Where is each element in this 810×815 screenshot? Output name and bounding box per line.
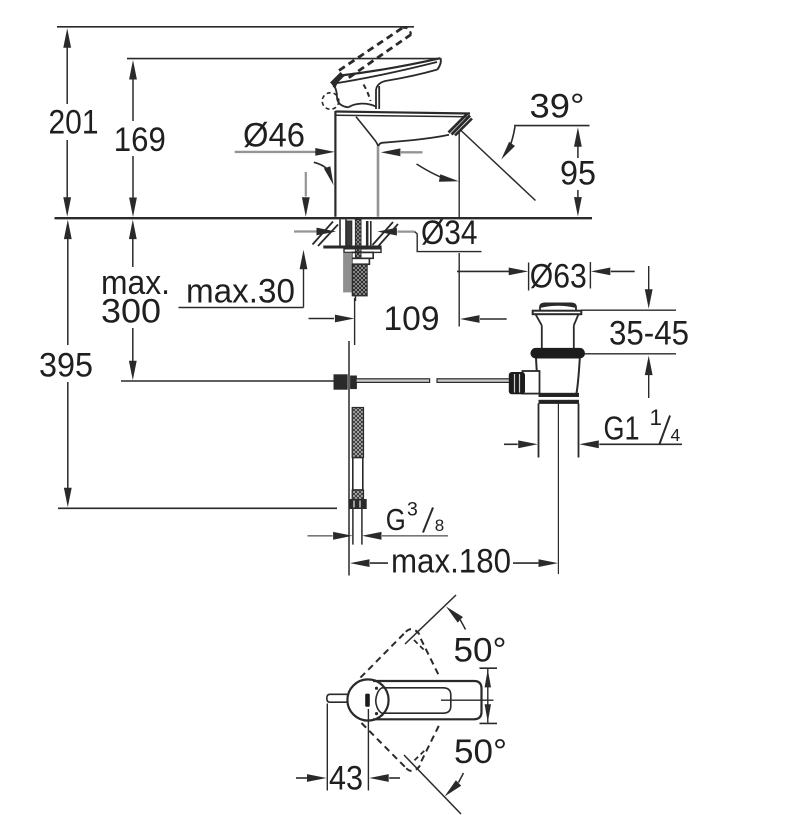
threaded shank [352, 264, 367, 296]
dim 109 ext left [354, 298, 356, 345]
waste flange reference line [581, 309, 676, 311]
handle ball dashed [322, 93, 339, 110]
label 395 [39, 347, 93, 385]
O63 arrows [457, 268, 635, 276]
label 109 [384, 300, 440, 338]
plan handle ball [347, 679, 388, 720]
svg-text:201: 201 [49, 104, 99, 142]
G38 arrows [308, 532, 449, 540]
raised lever dashed upper edge [349, 35, 411, 78]
faucet body left edge [334, 111, 336, 217]
svg-text:95: 95 [560, 155, 596, 193]
waste center line [557, 404, 559, 575]
raised lever dashed tip [403, 28, 412, 35]
hose nut [350, 500, 366, 509]
waste o-ring [531, 348, 585, 358]
50deg upper arrow [446, 607, 466, 630]
max30 leader [179, 250, 308, 308]
50deg upper diagonal [405, 595, 456, 644]
datum line top (spout max height) [57, 26, 414, 28]
G1 arrows [504, 440, 682, 448]
svg-text:39°: 39° [530, 88, 585, 126]
39 deg reference line [514, 125, 590, 127]
deck hatch right [373, 222, 399, 247]
dim 43 arrows [296, 774, 400, 782]
braided hose lower [352, 490, 363, 500]
svg-text:4: 4 [671, 425, 681, 445]
svg-text:3: 3 [407, 498, 418, 520]
cartridge dome [349, 104, 376, 108]
label 39deg [530, 88, 585, 126]
dim 109 arrows [309, 315, 507, 323]
label 35-45 [609, 315, 689, 353]
label O34 [421, 214, 478, 252]
svg-text:Ø46: Ø46 [243, 117, 305, 155]
max30 upper arrow [302, 172, 310, 217]
label 169 [114, 121, 166, 159]
braided hose upper [352, 408, 363, 458]
waste tailpipe [539, 403, 579, 457]
dim max180 arrows [350, 559, 558, 567]
dim O46 arrows [235, 148, 423, 156]
shank step 1 [352, 252, 373, 258]
spout outlet leader [458, 131, 460, 327]
svg-text:109: 109 [384, 300, 440, 338]
datum line handle tip [127, 58, 440, 60]
plan lever inlay [376, 688, 451, 713]
lever skirt back [333, 84, 349, 107]
waste lever knob [509, 373, 524, 394]
dim 43 ext lines [327, 704, 368, 791]
spout swivel arc [417, 164, 459, 182]
dim 35-45 [645, 266, 653, 398]
lever travel dashed arc [364, 85, 371, 102]
plan dots [375, 687, 378, 716]
label max.30 [186, 273, 295, 311]
shank step 2 [352, 258, 370, 264]
dim O34 arrows [294, 228, 415, 236]
rod clevis [334, 375, 356, 389]
dashed lever down [362, 723, 441, 771]
spout underside [378, 135, 449, 148]
svg-text:50°: 50° [454, 632, 507, 670]
horizontal rod segment 2 [437, 379, 512, 383]
supply hose end reference line [58, 507, 337, 509]
svg-text:max.180: max.180 [391, 543, 511, 581]
plan pivot tick [366, 694, 370, 706]
dim 201 line [63, 28, 71, 217]
waste body [536, 358, 580, 393]
waste o-ring reference line [585, 353, 677, 355]
label 300 [101, 293, 161, 331]
svg-text:8: 8 [435, 516, 444, 535]
label max. [101, 264, 170, 302]
lever top edge [341, 58, 441, 75]
svg-text:G: G [386, 502, 406, 537]
waste neck [542, 325, 574, 348]
O34 leader box [415, 232, 482, 252]
svg-text:50°: 50° [454, 733, 507, 771]
svg-text:Ø34: Ø34 [421, 214, 478, 252]
waste knob [540, 303, 576, 310]
faucet body top edge [335, 112, 470, 117]
plan pivot pin [327, 694, 348, 702]
waste band [539, 393, 579, 403]
label G38 [386, 498, 444, 537]
label 43 [329, 760, 363, 798]
svg-text:300: 300 [101, 293, 161, 331]
spray direction line 39deg [461, 131, 536, 201]
plan lever outline [373, 681, 482, 719]
svg-text:43: 43 [329, 760, 363, 798]
O63 ticks [529, 262, 591, 291]
svg-text:Ø63: Ø63 [530, 258, 587, 296]
svg-text:395: 395 [39, 347, 93, 385]
plan center line [441, 699, 494, 701]
label max.180 [391, 543, 511, 581]
label G1 1/4 [604, 405, 681, 447]
dim 95 line [574, 127, 582, 216]
spout tip aerator face [449, 114, 473, 136]
lever tip end [438, 58, 441, 69]
label 50deg upper [454, 632, 507, 670]
hose smooth tube [353, 458, 363, 491]
svg-text:1: 1 [650, 405, 663, 430]
label O46 [243, 117, 305, 155]
mounting deck line [55, 217, 593, 219]
lever underside and skirt front [376, 70, 438, 110]
label O63 [530, 258, 587, 296]
raised lever dashed lower edge [339, 28, 403, 71]
svg-text:169: 169 [114, 121, 166, 159]
lever top inner edge [335, 62, 438, 84]
threaded rod in nut [355, 220, 361, 259]
waste flange [533, 311, 582, 326]
mounting nut [340, 220, 371, 246]
handle swing arc [314, 162, 334, 185]
lever nose beak [332, 74, 343, 88]
arc arrow 39deg [501, 127, 515, 160]
waste lever boss [523, 371, 540, 394]
body neck curve [356, 117, 378, 146]
pull rod upper gray [344, 253, 352, 292]
label 50deg lower [454, 733, 507, 771]
label 201 [49, 104, 99, 142]
shank center tick [355, 296, 357, 301]
dim max300 line [129, 220, 137, 381]
washer plate [323, 247, 381, 252]
svg-text:35-45: 35-45 [609, 315, 689, 353]
dim 395 line [64, 220, 72, 508]
50deg lower arrow [445, 773, 464, 797]
svg-text:max.30: max.30 [186, 273, 295, 311]
dashed lever up [361, 629, 440, 678]
50deg ticks [480, 668, 498, 723]
label 95 [560, 155, 596, 193]
faucet body front edge [377, 146, 380, 217]
50deg lower diagonal [404, 755, 461, 814]
supply cross reference line [121, 380, 334, 382]
pull rod vertical [348, 341, 350, 576]
G38 tube [353, 509, 362, 545]
deck hatch left [313, 222, 339, 247]
horizontal rod segment 1 [356, 379, 430, 383]
dim 169 line [129, 60, 137, 217]
svg-text:G1: G1 [604, 410, 640, 447]
